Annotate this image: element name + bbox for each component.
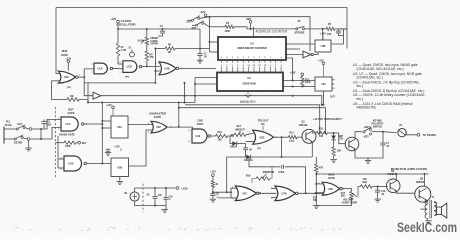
wire mon riser: [305, 167, 307, 194]
svg-text:(FF): (FF): [257, 148, 261, 150]
svg-text:0.003: 0.003: [278, 171, 285, 174]
monitor pot R16: [256, 177, 270, 180]
capacitor C7: [382, 132, 384, 143]
svg-text:R17: R17: [341, 193, 346, 195]
wire R12 riser: [286, 58, 293, 81]
svg-text:TAPER: TAPER: [150, 42, 158, 45]
svg-text:U7D: U7D: [328, 188, 333, 191]
battery B1: [130, 192, 139, 201]
svg-text:+12 VDC THROUGHOUT: +12 VDC THROUGHOUT: [313, 118, 342, 121]
wire U4A bottom stub: [322, 91, 324, 105]
svg-text:5: 5: [226, 65, 227, 67]
wire U1A out: [113, 67, 123, 70]
svg-text:4.7M: 4.7M: [121, 49, 126, 52]
svg-text:5: 5: [253, 57, 254, 59]
svg-text:+12V: +12V: [181, 186, 188, 190]
svg-text:12: 12: [188, 130, 190, 132]
svg-text:8: 8: [232, 187, 233, 189]
ground keyer: [28, 140, 30, 148]
wire char riser: [184, 83, 186, 103]
wire U1C out: [84, 123, 102, 125]
svg-text:+KEY: +KEY: [364, 126, 371, 129]
wire U2A out: [78, 76, 84, 78]
switch S2 strobe: [296, 28, 298, 30]
svg-text:+12V: +12V: [290, 71, 296, 74]
resistor R10 100K: [55, 142, 64, 144]
wire S2 to R5: [304, 28, 326, 30]
svg-text:(FF): (FF): [67, 87, 71, 89]
diode D1 1N914: [230, 136, 232, 144]
terminal key line: [78, 141, 81, 144]
svg-text:3: 3: [232, 57, 233, 59]
svg-text:10K: 10K: [218, 139, 223, 142]
wire U2B out: [179, 67, 216, 69]
wire Q3 collector: [395, 174, 397, 181]
terminal +12V U4A top: [322, 62, 325, 65]
svg-text:KEYER: KEYER: [14, 142, 23, 145]
svg-text:1: 1: [270, 65, 271, 67]
wire U2C out: [166, 126, 193, 128]
diode D2: [333, 133, 335, 136]
svg-text:10K: 10K: [319, 136, 324, 138]
svg-text:2: 2: [57, 84, 58, 86]
buffer U9: [84, 83, 93, 96]
device X1: [130, 52, 135, 57]
buffer U9B: [286, 54, 303, 56]
wire U3A to U2C: [128, 124, 153, 126]
nor gate U2D: [246, 141, 254, 143]
capacitor C6: [210, 193, 215, 195]
wire counter feed: [253, 27, 255, 37]
wire weight out: [246, 133, 254, 135]
wire U2A out down: [83, 77, 85, 83]
svg-text:1: 1: [58, 118, 59, 120]
resistor R5 10K: [326, 27, 335, 30]
svg-text:+12V: +12V: [210, 171, 216, 174]
wire S1 feed: [188, 19, 192, 21]
svg-text:U2D: U2D: [259, 136, 264, 139]
svg-text:U5: U5: [250, 42, 254, 46]
svg-text:7: 7: [259, 57, 260, 59]
svg-text:2: 2: [237, 65, 238, 67]
resistor R7 1M: [52, 81, 68, 100]
svg-text:ADDRESS COUNTER: ADDRESS COUNTER: [256, 30, 288, 34]
switch S1A: [192, 19, 194, 21]
resistor R12 100K: [301, 75, 303, 78]
svg-text:GATE: GATE: [197, 123, 204, 126]
svg-text:R16: R16: [246, 175, 251, 178]
svg-text:KEY: KEY: [82, 142, 87, 145]
svg-text:9: 9: [148, 131, 149, 133]
transistor Q4: [415, 186, 431, 202]
wire U5 left pins: [209, 17, 211, 52]
svg-text:3: 3: [79, 74, 80, 76]
resistor R4 100K: [225, 25, 234, 28]
svg-text:1M: 1M: [168, 52, 171, 54]
terminal to transmitter: [406, 133, 417, 135]
svg-text:2N5139: 2N5139: [299, 124, 308, 127]
nand gate U1D dash: [57, 136, 59, 168]
nor gate U7C: [235, 186, 256, 201]
wire char riser2: [178, 103, 180, 127]
svg-text:MONITOR: MONITOR: [263, 171, 275, 174]
wire Q1 collector: [312, 131, 316, 133]
transistor Q1: [302, 129, 316, 143]
capacitor C1 1.5: [162, 29, 164, 31]
resistor R3 47K: [146, 45, 148, 51]
svg-text:etc.): etc.): [357, 84, 364, 88]
svg-text:5: 5: [91, 63, 92, 65]
wire pot ties: [252, 179, 256, 184]
svg-text:1: 1: [57, 70, 58, 72]
svg-text:R15: R15: [319, 129, 324, 131]
svg-text:1M: 1M: [70, 95, 73, 98]
wire feedback: [84, 82, 155, 84]
wire aux riser: [226, 157, 228, 192]
wire rail 174: [316, 173, 428, 175]
wire to R4: [210, 26, 226, 28]
flip-flop U4B: [315, 40, 331, 52]
ground T1: [426, 218, 428, 220]
capacitor C12 .047: [377, 187, 379, 191]
svg-text:9: 9: [281, 65, 282, 67]
svg-text:MEMORY: MEMORY: [240, 100, 257, 104]
capacitor C2: [199, 29, 201, 54]
nor gate U2B: [159, 62, 176, 75]
svg-text:15: 15: [264, 65, 266, 67]
svg-text:AUDIO TAPER: AUDIO TAPER: [342, 202, 358, 205]
wire U5 to U4B: [286, 43, 315, 45]
wire U2A cross: [84, 69, 94, 77]
terminal +12V out: [176, 187, 179, 190]
resistor R13: [289, 136, 298, 139]
svg-text:+12V: +12V: [65, 57, 71, 60]
svg-text:50K: 50K: [313, 200, 318, 202]
svg-text:1K: 1K: [215, 184, 218, 186]
svg-text:2N3053: 2N3053: [416, 182, 425, 184]
wire U6 right buses: [283, 80, 315, 82]
svg-text:(CD4001AE, etc.): (CD4001AE, etc.): [357, 76, 384, 80]
svg-text:RUN: RUN: [62, 49, 68, 53]
svg-text:S1B: S1B: [192, 27, 197, 30]
potentiometer R22 volume: [350, 192, 353, 200]
svg-text:+12V: +12V: [111, 18, 117, 21]
resistor R19 560: [332, 147, 335, 156]
svg-text:KEY: KEY: [18, 123, 23, 126]
svg-text:2N3904: 2N3904: [388, 173, 397, 176]
svg-text:S1A: S1A: [187, 21, 192, 24]
svg-text:U2A: U2A: [64, 76, 69, 79]
terminal +12V supply: [204, 14, 207, 17]
svg-text:-KEY: -KEY: [363, 136, 369, 139]
svg-text:2: 2: [58, 128, 59, 130]
svg-text:5: 5: [271, 187, 272, 189]
svg-text:SeekIC.com: SeekIC.com: [397, 220, 457, 235]
wire mon rail: [315, 173, 317, 206]
wire T1 to speaker: [434, 203, 437, 207]
svg-text:6: 6: [271, 198, 272, 200]
switch S3 key: [9, 128, 17, 130]
switch S3B: [9, 138, 15, 140]
resistor R14 10K: [211, 135, 216, 137]
svg-text:13: 13: [248, 65, 250, 67]
svg-text:(FF): (FF): [125, 77, 129, 79]
nand gate U1E chr: [192, 127, 195, 132]
svg-text:DO/DA GATE: DO/DA GATE: [59, 133, 75, 136]
svg-text:OSCILLATOR: OSCILLATOR: [116, 23, 136, 27]
svg-text:8: 8: [148, 123, 149, 125]
svg-text:6: 6: [156, 74, 157, 76]
resistor R15: [316, 131, 327, 134]
transistor Q2: [345, 137, 359, 151]
wire R15 to Q2 base: [334, 133, 346, 144]
wire U2D out: [273, 136, 289, 138]
dashed supply: [142, 184, 144, 213]
svg-text:13: 13: [60, 168, 62, 170]
svg-text:GATE: GATE: [67, 111, 74, 115]
svg-text:WEIGHT: WEIGHT: [235, 128, 245, 131]
svg-text:6: 6: [221, 65, 222, 67]
svg-text:U4A: U4A: [321, 83, 326, 86]
svg-text:12: 12: [318, 183, 320, 185]
wire memory bus B: [179, 108, 326, 133]
capacitor bypass U3: [107, 148, 109, 151]
svg-text:(CD4011AE, MCL4011AE, etc.): (CD4011AE, MCL4011AE, etc.): [357, 67, 404, 71]
nand gate U1C dot: [61, 117, 78, 131]
resistor R21 47K: [315, 157, 317, 164]
nor gate U2C: [151, 121, 167, 133]
svg-text:13: 13: [318, 193, 320, 195]
svg-text:NC: NC: [261, 123, 265, 126]
svg-text:47K: 47K: [319, 166, 324, 169]
capacitor C4: [245, 144, 247, 148]
svg-text:9: 9: [120, 72, 121, 74]
svg-text:9: 9: [232, 198, 233, 200]
nand gate U1A: [94, 63, 107, 74]
wire U7B out: [298, 192, 323, 194]
wire supply top rail: [135, 188, 177, 192]
flip-flop U4A: [315, 77, 332, 91]
svg-text:PLUG: PLUG: [5, 124, 12, 127]
wire U7C in1 feed: [231, 188, 236, 192]
svg-text:CMOS BINARY COUNTER: CMOS BINARY COUNTER: [237, 47, 267, 50]
svg-text:U7B: U7B: [282, 193, 287, 196]
speaker SPK1: [437, 207, 442, 215]
wire mem riser: [194, 78, 196, 103]
wire +12V rail: [210, 17, 311, 51]
svg-text:12: 12: [253, 65, 255, 67]
wire Q3 emitter to Q4: [396, 191, 415, 194]
svg-text:U3B: U3B: [117, 167, 122, 170]
wire wiper to R18: [356, 187, 361, 197]
svg-text:U1E: U1E: [196, 135, 201, 138]
svg-text:12: 12: [60, 157, 62, 159]
resistor R1 4.7M: [117, 29, 119, 43]
wire U7D out: [342, 189, 351, 192]
transistor Q3: [386, 179, 400, 193]
ground supply: [165, 206, 167, 210]
svg-text:50K: 50K: [341, 196, 346, 198]
svg-text:U1A: U1A: [98, 68, 103, 71]
wire buffer out: [101, 96, 322, 105]
nor gate U7D: [316, 183, 323, 185]
svg-text:+12V: +12V: [114, 145, 120, 148]
wire U1B out: [142, 65, 160, 67]
svg-text:STROBE: STROBE: [295, 32, 305, 35]
potentiometer R11 weight: [234, 133, 246, 136]
svg-text:13: 13: [188, 141, 190, 143]
wire 47K to U2B: [146, 61, 148, 67]
terminal +12V run: [67, 60, 70, 63]
wire Q4 emitter: [426, 200, 428, 203]
wire dot row: [218, 197, 236, 199]
capacitor C9: [154, 188, 156, 196]
wire supply bottom rail: [135, 201, 166, 205]
svg-text:100K: 100K: [305, 82, 311, 84]
nor gate U7B: [275, 188, 277, 190]
svg-text:GATE: GATE: [61, 53, 68, 57]
svg-text:R17: R17: [313, 197, 318, 199]
svg-text:1: 1: [243, 57, 244, 59]
svg-text:3: 3: [232, 65, 233, 67]
wire Q2 collector up: [355, 132, 362, 140]
terminal key ring: [27, 138, 30, 141]
wire mem lower: [88, 102, 195, 104]
svg-text:6: 6: [226, 57, 227, 59]
svg-text:GATE: GATE: [154, 115, 161, 119]
svg-text:R18: R18: [363, 181, 368, 184]
svg-text:10K: 10K: [363, 179, 368, 181]
diode D3 1N914A: [243, 156, 246, 158]
svg-text:OUT: OUT: [330, 97, 335, 99]
svg-text:CMOS RAM: CMOS RAM: [242, 82, 255, 85]
svg-text:6: 6: [249, 141, 250, 143]
switch S1B: [196, 24, 198, 26]
svg-text:100K: 100K: [225, 30, 231, 33]
wire U1 outs riser: [101, 103, 103, 164]
wire +12V top rail: [56, 7, 347, 9]
svg-text:U7C: U7C: [242, 192, 247, 195]
ground U3B: [119, 177, 121, 182]
svg-text:9: 9: [221, 57, 222, 59]
capacitor C3: [338, 29, 340, 31]
svg-text:100K: 100K: [65, 146, 71, 148]
svg-text:IM6508CJN).: IM6508CJN).: [357, 106, 377, 110]
svg-text:+12V: +12V: [106, 104, 112, 107]
wire R5 out: [335, 28, 347, 30]
svg-text:MONITOR AMPLIFIERS: MONITOR AMPLIFIERS: [391, 167, 428, 171]
svg-text:U1C: U1C: [66, 123, 71, 126]
svg-text:500/8: 500/8: [420, 209, 426, 211]
svg-text:2: 2: [248, 57, 249, 59]
svg-text:10K: 10K: [327, 33, 332, 36]
svg-text:R12: R12: [305, 79, 310, 81]
IC U6 memory RAM: [217, 73, 283, 92]
svg-text:U1B: U1B: [127, 66, 132, 69]
svg-text:+12V: +12V: [320, 33, 326, 36]
wire osc top: [118, 28, 200, 30]
capacitor C5: [43, 123, 45, 129]
plug K1: [383, 131, 397, 134]
svg-text:R13: R13: [290, 132, 295, 134]
svg-text:8: 8: [120, 61, 121, 63]
capacitor C11 0.003: [249, 157, 281, 167]
wire strobe node down: [322, 29, 324, 40]
svg-text:3: 3: [270, 57, 271, 59]
svg-text:U5 — CMOS, 12-bit binary count: U5 — CMOS, 12-bit binary counter (CD4040…: [353, 93, 426, 97]
svg-text:KEY: KEY: [237, 126, 242, 128]
svg-text:+12V: +12V: [200, 11, 206, 14]
wire U7C out: [259, 192, 277, 194]
wire key junction: [40, 129, 42, 139]
flip-flop U3A: [111, 116, 128, 138]
svg-text:8: 8: [264, 57, 265, 59]
transformer T1: [425, 200, 427, 218]
capacitor C10: [165, 188, 167, 197]
svg-text:U2C: U2C: [156, 126, 161, 129]
wire Q4 collector: [424, 174, 426, 187]
svg-text:U6: U6: [247, 76, 251, 80]
terminal +12V U3A: [112, 106, 115, 109]
resistor R20 1K: [211, 181, 214, 188]
svg-text:U4B: U4B: [321, 45, 326, 48]
flip-flop U3B: [111, 158, 129, 177]
svg-text:7: 7: [275, 65, 276, 67]
svg-text:GATE: GATE: [328, 177, 335, 180]
svg-text:SWITCH: SWITCH: [373, 125, 383, 128]
wire Q1 emitter: [311, 142, 313, 158]
svg-text:B-1M: B-1M: [138, 41, 144, 43]
terminal +12V osc: [117, 20, 120, 23]
svg-text:5: 5: [249, 131, 250, 133]
svg-text:+12V: +12V: [318, 59, 324, 62]
wire aux node: [213, 192, 236, 198]
svg-text:6: 6: [91, 72, 92, 74]
svg-text:47K: 47K: [150, 56, 155, 59]
wire Q2 emitter gnd: [355, 149, 368, 161]
svg-text:etc.): etc.): [357, 97, 364, 101]
wire U4A out pins: [332, 79, 335, 81]
svg-text:TO TRANS.: TO TRANS.: [423, 133, 437, 137]
wire rail tick: [340, 28, 347, 30]
terminal key tip: [29, 128, 32, 131]
potentiometer R2 speed: [146, 29, 148, 37]
wire key to U1A: [41, 120, 63, 130]
svg-text:4.7K: 4.7K: [289, 140, 294, 143]
nand gate U1B: [123, 61, 137, 73]
terminal REF: [249, 21, 252, 24]
svg-text:5: 5: [156, 63, 157, 65]
wire U1D out: [87, 163, 111, 165]
switch S4 polarity: [363, 131, 365, 133]
wire left rail down to run gate: [56, 8, 60, 74]
svg-text:U1D: U1D: [68, 163, 73, 166]
wire U4B out: [331, 29, 344, 44]
svg-text:DOT: DOT: [68, 108, 74, 112]
shield dashed: [54, 107, 56, 178]
svg-text:C12: C12: [381, 191, 386, 193]
svg-text:U2B: U2B: [165, 68, 170, 71]
resistor R18 10K: [361, 185, 373, 188]
wire U3B to U2C: [129, 130, 153, 166]
svg-text:1N914: 1N914: [230, 145, 238, 148]
svg-text:R14: R14: [218, 131, 223, 134]
svg-text:AUDIO: AUDIO: [150, 40, 158, 43]
svg-text:6: 6: [281, 57, 282, 59]
svg-text:HEP: HEP: [246, 18, 251, 21]
svg-text:U3A: U3A: [117, 126, 122, 129]
wire right rail down: [346, 8, 348, 49]
